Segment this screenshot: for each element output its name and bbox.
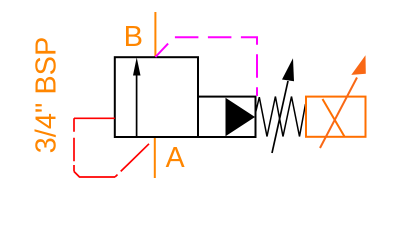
pilot stage box	[198, 97, 256, 137]
svg-text:A: A	[166, 142, 185, 174]
drain line bottom chamfer and horizontal red	[74, 172, 115, 178]
proportional solenoid box	[306, 97, 366, 137]
flow arrow head	[133, 57, 141, 75]
drain line diagonal red dashed	[115, 144, 149, 177]
spring	[256, 97, 306, 137]
spring adjust arrow shaft	[272, 81, 288, 153]
flow arrow shaft	[136, 74, 138, 137]
pilot triangle	[226, 98, 256, 136]
pilot line magenta dashed	[155, 37, 257, 96]
proportional arrow head	[351, 55, 366, 75]
svg-text:B: B	[124, 21, 143, 53]
svg-text:3/4" BSP: 3/4" BSP	[31, 37, 63, 154]
drain line top horizontal red	[74, 117, 115, 119]
proportional arrow shaft	[320, 78, 357, 149]
spring adjust arrow head	[282, 58, 294, 81]
solenoid X diagonal	[323, 99, 345, 137]
drain line left vertical red dashed	[73, 118, 75, 171]
valve body square	[115, 57, 198, 137]
port line B	[154, 12, 156, 57]
port line A	[154, 137, 156, 178]
